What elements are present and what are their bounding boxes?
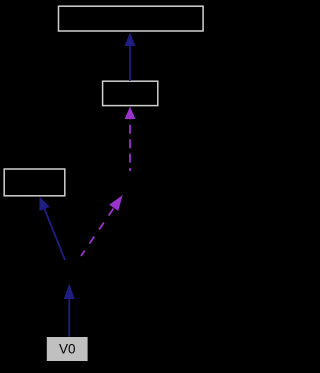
node V0 (gray filled) xyxy=(47,337,88,361)
edge hidden node to hidden node (dashed purple diagonal arrow) xyxy=(81,195,123,256)
edge hidden node to middle box (dashed purple arrow, vertical) xyxy=(125,107,136,172)
edge hidden node to left box (solid blue diagonal arrow) xyxy=(39,197,65,261)
svg-text:V0: V0 xyxy=(59,342,76,357)
node box left (empty label) xyxy=(4,169,65,196)
edge middle box to top box (solid blue inheritance arrow) xyxy=(125,33,136,82)
node box top (empty label) xyxy=(59,6,204,31)
node box middle (empty label) xyxy=(103,81,158,105)
edge V0 to hidden node (solid blue vertical arrow) xyxy=(64,284,75,337)
